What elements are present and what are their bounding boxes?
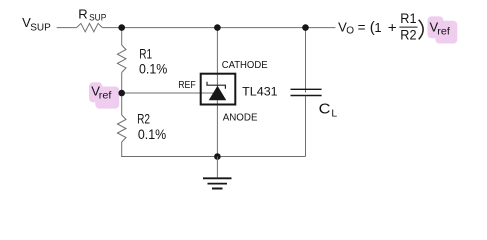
svg-text:CATHODE: CATHODE — [222, 60, 268, 71]
node: CL/VO junction — [302, 24, 309, 31]
node: Vref junction — [118, 90, 125, 97]
svg-text:L: L — [331, 109, 337, 120]
resistor R2 — [117, 115, 126, 142]
wire: left branch upper — [121, 28, 123, 93]
formula ) — [419, 20, 423, 40]
svg-text:TL431: TL431 — [242, 87, 277, 99]
svg-text:R1: R1 — [400, 10, 416, 26]
node: cathode junction — [214, 24, 221, 31]
svg-text:C: C — [319, 100, 331, 117]
wire: bottom rail — [121, 156, 305, 158]
svg-text:R1: R1 — [139, 46, 152, 61]
svg-text:0.1%: 0.1% — [139, 61, 167, 76]
svg-text:+: + — [388, 19, 397, 35]
svg-text:REF: REF — [178, 80, 196, 91]
TL431 triangle — [209, 86, 227, 100]
highlight Vref (left node label) — [89, 82, 119, 108]
svg-text:R2: R2 — [400, 27, 416, 43]
svg-text:ref: ref — [437, 27, 450, 38]
resistor R1 — [117, 45, 126, 73]
wire: cathode lead — [216, 28, 218, 87]
wire: REF line — [122, 92, 214, 94]
svg-text:O: O — [346, 26, 354, 37]
svg-text:=: = — [358, 20, 366, 35]
svg-text:R: R — [78, 6, 87, 21]
svg-text:0.1%: 0.1% — [138, 127, 166, 142]
node: anode/ground junction — [214, 153, 221, 160]
highlight Vref (in output formula) — [428, 16, 458, 43]
svg-text:ANODE: ANODE — [223, 113, 258, 124]
svg-text:ref: ref — [99, 91, 112, 102]
svg-text:R2: R2 — [137, 111, 150, 126]
svg-text:1: 1 — [374, 20, 381, 35]
svg-text:SUP: SUP — [89, 12, 106, 22]
op-amp U1 TL431 body — [201, 74, 236, 105]
fraction bar — [399, 26, 417, 28]
node: VSUP/R1 junction — [118, 24, 125, 31]
capacitor CL plates — [291, 89, 322, 95]
capacitor CL bottom lead — [305, 96, 307, 157]
wire: anode lead — [216, 100, 218, 157]
capacitor CL top lead — [305, 28, 307, 93]
resistor RSUP — [77, 23, 103, 31]
wire: left branch lower — [121, 93, 123, 157]
svg-text:SUP: SUP — [30, 23, 51, 34]
TL431 cathode bar — [207, 82, 225, 89]
wire: top rail — [57, 27, 336, 29]
ground — [203, 157, 232, 189]
